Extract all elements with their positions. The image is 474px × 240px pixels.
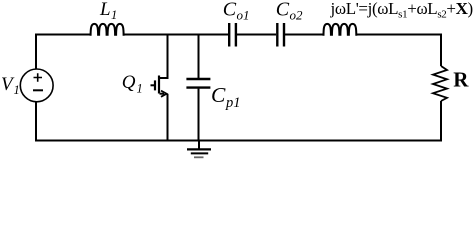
svg-text:L: L [99,0,111,20]
svg-text:1: 1 [14,83,20,97]
svg-text:1: 1 [137,82,143,96]
svg-text:R: R [453,67,469,91]
svg-text:o2: o2 [290,8,304,23]
svg-text:C: C [211,83,226,107]
svg-text:p1: p1 [225,95,241,111]
svg-text:C: C [276,0,290,21]
svg-text:jωL'=j(ωLs1+ωLs2+X): jωL'=j(ωLs1+ωLs2+X) [330,0,473,21]
svg-text:Q: Q [122,72,136,93]
svg-text:1: 1 [111,8,117,22]
svg-text:C: C [223,0,237,21]
svg-text:o1: o1 [237,8,250,23]
